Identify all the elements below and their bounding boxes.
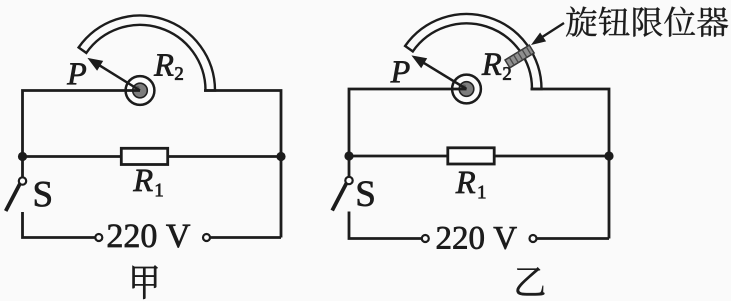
switch S lever blade (circuit jia) [6,184,20,211]
label R1 (circuit jia) [133,170,152,191]
junction node right (circuit jia) [276,152,285,161]
annotation text xuan-niu-xian-wei-qi (knob limiter) [566,7,597,37]
resistor R1 body (circuit yi) [448,148,494,164]
label S (circuit yi) [358,181,374,206]
label S (circuit jia) [35,182,51,207]
supply terminal left (circuit jia) [95,234,102,241]
wire middle branch (circuit jia) [23,155,282,158]
label R2 (circuit jia) [154,54,173,75]
junction node left (circuit jia) [18,152,27,161]
caption jia [133,265,158,299]
wire bottom-right from terminal to right rail (circuit jia) [210,236,281,239]
switch S pivot circle (circuit jia) [19,177,26,184]
caption yi [517,267,545,295]
supply terminal left (circuit yi) [422,235,429,242]
wire top-left from left rail to rheostat wiper center (circuit yi) [349,89,467,156]
rheostat R2 wiper arm with arrowhead pointer (circuit yi) [422,62,467,89]
supply terminal right (circuit jia) [203,234,210,241]
wire from switch down to bottom-left corner (circuit yi) [349,212,422,239]
wire from left junction down to switch (circuit jia) [21,157,24,178]
label 220 V (circuit yi) [437,227,450,249]
junction node left (circuit yi) [344,151,353,160]
label P (circuit yi) [391,61,410,82]
label R2 (circuit yi) [482,54,501,75]
wire middle branch (circuit yi) [349,155,609,158]
rheostat R2 knob shaft hatched center (circuit jia) [133,83,148,98]
wire bottom-right from terminal to right rail (circuit yi) [537,237,610,240]
wire from left junction down to switch (circuit yi) [348,156,351,177]
label P (circuit jia) [67,63,86,84]
rheostat R2 knob shaft outer circle (circuit yi) [452,75,481,104]
wire from switch down to bottom-left corner (circuit jia) [23,212,96,238]
wire top-left from left rail to rheostat wiper center (circuit jia) [23,91,141,157]
rheostat R2 arc track (circuit jia) [79,16,215,91]
junction node right (circuit yi) [604,151,613,160]
rheostat R2 wiper arm with arrowhead pointer (circuit jia) [98,64,140,90]
label 220 V (circuit jia) [108,224,122,247]
rheostat R2 knob shaft outer circle (circuit jia) [126,76,155,105]
rheostat R2 knob shaft hatched center (circuit yi) [459,82,474,97]
knob limiter stop block on R2 arc (circuit yi) [505,45,534,68]
resistor R1 body (circuit jia) [121,148,167,164]
supply terminal right (circuit yi) [530,235,537,242]
wire top-right from rheostat arc end to right rail (circuit jia) [204,91,281,238]
switch S lever blade (circuit yi) [332,184,346,211]
annotation arrow pointing to knob limiter [540,23,565,39]
switch S pivot circle (circuit yi) [345,177,352,184]
wire top-right from rheostat arc end to right rail (circuit yi) [531,89,610,239]
label R1 (circuit yi) [456,172,475,193]
rheostat R2 arc track (circuit yi) [405,14,541,89]
